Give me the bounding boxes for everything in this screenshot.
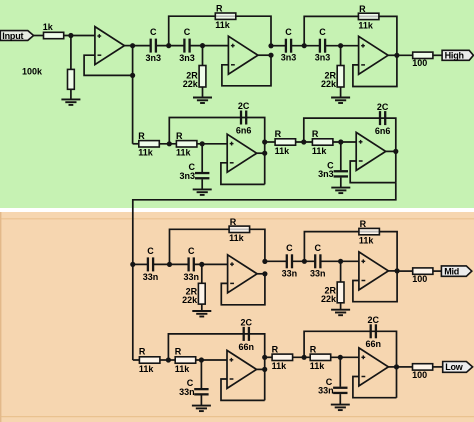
svg-text:11k: 11k <box>272 361 288 371</box>
svg-text:C: C <box>285 27 292 37</box>
svg-text:100: 100 <box>412 274 427 284</box>
svg-text:Input: Input <box>2 31 23 41</box>
svg-text:R: R <box>272 345 279 355</box>
svg-text:11k: 11k <box>139 364 155 374</box>
svg-text:3n3: 3n3 <box>315 53 331 63</box>
svg-text:33n: 33n <box>179 387 195 397</box>
svg-text:11k: 11k <box>175 364 191 374</box>
svg-text:11k: 11k <box>359 236 375 246</box>
svg-text:33n: 33n <box>183 272 199 282</box>
svg-text:3n3: 3n3 <box>146 53 162 63</box>
svg-text:33n: 33n <box>318 386 334 396</box>
svg-text:100: 100 <box>412 58 427 68</box>
svg-text:C: C <box>286 243 293 253</box>
svg-text:R: R <box>230 217 237 227</box>
svg-text:3n3: 3n3 <box>179 53 195 63</box>
svg-text:R: R <box>216 4 223 14</box>
svg-text:R: R <box>139 346 146 356</box>
svg-text:33n: 33n <box>143 272 159 282</box>
svg-text:High: High <box>445 51 464 61</box>
svg-text:11k: 11k <box>176 148 192 158</box>
svg-text:22k: 22k <box>183 79 199 89</box>
svg-text:11k: 11k <box>358 20 374 30</box>
svg-text:11k: 11k <box>215 20 231 30</box>
svg-text:100k: 100k <box>22 67 43 77</box>
svg-text:3n3: 3n3 <box>179 171 195 181</box>
svg-text:R: R <box>138 131 145 141</box>
svg-text:2C: 2C <box>241 318 253 328</box>
svg-text:C: C <box>147 246 154 256</box>
svg-text:2C: 2C <box>377 102 389 112</box>
svg-text:C: C <box>184 27 191 37</box>
svg-text:R: R <box>360 219 367 229</box>
svg-text:22k: 22k <box>321 294 337 304</box>
svg-text:R: R <box>176 131 183 141</box>
svg-text:6n6: 6n6 <box>236 125 252 135</box>
svg-text:C: C <box>150 27 157 37</box>
svg-text:C: C <box>188 246 195 256</box>
svg-text:C: C <box>315 243 322 253</box>
svg-text:R: R <box>310 345 317 355</box>
svg-text:R: R <box>359 4 366 14</box>
svg-text:3n3: 3n3 <box>281 53 297 63</box>
svg-text:3n3: 3n3 <box>318 169 334 179</box>
svg-text:100: 100 <box>412 370 427 380</box>
svg-text:66n: 66n <box>239 342 255 352</box>
svg-text:R: R <box>312 129 319 139</box>
svg-text:Low: Low <box>445 362 464 372</box>
svg-text:11k: 11k <box>310 361 326 371</box>
svg-text:2C: 2C <box>238 101 250 111</box>
svg-text:6n6: 6n6 <box>375 126 391 136</box>
svg-text:11k: 11k <box>229 233 245 243</box>
svg-text:11k: 11k <box>275 146 291 156</box>
svg-text:R: R <box>275 129 282 139</box>
svg-text:Mid: Mid <box>444 266 459 276</box>
svg-text:2C: 2C <box>368 315 380 325</box>
svg-text:22k: 22k <box>182 295 198 305</box>
svg-text:33n: 33n <box>310 269 326 279</box>
svg-text:11k: 11k <box>312 146 328 156</box>
svg-text:C: C <box>319 27 326 37</box>
svg-text:66n: 66n <box>366 339 382 349</box>
svg-text:11k: 11k <box>138 148 154 158</box>
svg-text:R: R <box>175 346 182 356</box>
svg-text:22k: 22k <box>321 79 337 89</box>
svg-text:33n: 33n <box>282 269 298 279</box>
svg-text:1k: 1k <box>43 22 54 32</box>
